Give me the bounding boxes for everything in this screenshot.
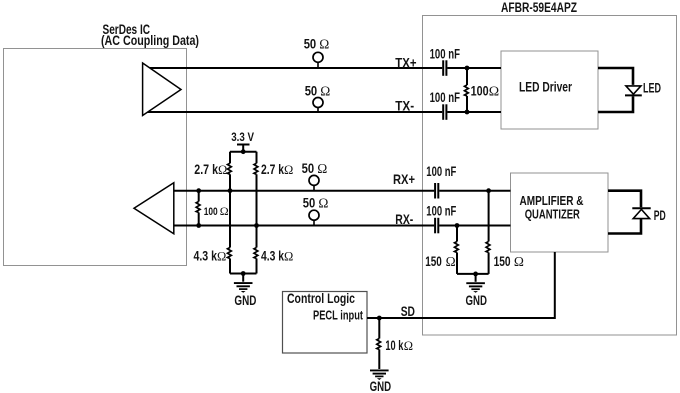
svg-text:QUANTIZER: QUANTIZER	[525, 206, 581, 221]
resistor 150 ohm left	[455, 226, 459, 274]
wire TX- line	[144, 111, 501, 113]
label 100 ohm RX shunt	[204, 204, 229, 218]
label RX+	[393, 171, 415, 187]
label (AC Coupling Data)	[101, 33, 199, 48]
svg-text:TX-: TX-	[395, 98, 414, 114]
node RX+ / left rail	[228, 188, 233, 193]
svg-text:Control Logic: Control Logic	[287, 291, 355, 306]
resistor 50 ohm probe TX-	[313, 98, 323, 113]
svg-text:150: 150	[494, 254, 511, 269]
svg-text:50: 50	[304, 37, 317, 52]
svg-text:TX+: TX+	[395, 54, 416, 70]
node TX- / 100 ohm	[465, 110, 470, 115]
label 150 ohm left	[425, 254, 455, 269]
box AFBR-59E4APZ module outline	[423, 16, 677, 336]
label LED	[643, 80, 661, 95]
wire left bias rail	[229, 174, 231, 247]
svg-text:RX+: RX+	[393, 171, 415, 187]
box Control Logic	[283, 292, 368, 354]
svg-text:150: 150	[425, 254, 442, 269]
svg-text:Ω: Ω	[217, 250, 226, 264]
svg-text:SD: SD	[401, 303, 415, 319]
svg-text:100 nF: 100 nF	[426, 204, 456, 219]
resistor 150 ohm right	[486, 191, 490, 274]
svg-text:Ω: Ω	[319, 37, 329, 52]
wire SD line	[367, 252, 555, 318]
label 50 ohm RX-	[303, 195, 329, 210]
svg-text:4.3 k: 4.3 k	[261, 249, 284, 264]
resistor 100 ohm RX shunt	[196, 191, 200, 226]
label SD	[401, 303, 415, 319]
svg-text:LED: LED	[643, 80, 661, 95]
wire 3.3V top bus	[230, 151, 257, 153]
label 2.7 kOhm right	[261, 162, 293, 177]
svg-text:100: 100	[204, 206, 218, 218]
svg-text:50: 50	[305, 83, 318, 98]
svg-text:RX-: RX-	[395, 211, 413, 227]
node SD / 10k	[377, 316, 382, 321]
label GND bias network	[234, 292, 256, 308]
label 100 nF TX+	[430, 46, 460, 61]
wire RX- line	[174, 225, 511, 227]
svg-text:PECL input: PECL input	[313, 309, 364, 323]
svg-text:2.7 k: 2.7 k	[194, 162, 218, 177]
svg-text:4.3 k: 4.3 k	[194, 249, 218, 264]
label 10 kOhm	[385, 338, 413, 353]
label 4.3 kOhm left	[194, 249, 227, 264]
label GND 10 kOhm	[370, 378, 392, 393]
ground 150 ohm	[466, 274, 485, 293]
wire right bias rail	[256, 174, 258, 247]
box AMPLIFIER & QUANTIZER	[511, 173, 609, 252]
label 3.3 V	[231, 130, 254, 144]
label 4.3 kOhm right	[261, 249, 293, 264]
svg-text:Ω: Ω	[284, 250, 293, 264]
box SerDes IC	[4, 49, 187, 266]
svg-text:Ω: Ω	[320, 83, 330, 98]
label TX+	[395, 54, 416, 70]
power 3.3 V tick	[237, 145, 250, 152]
svg-text:(AC Coupling Data): (AC Coupling Data)	[101, 33, 199, 48]
label GND 150 ohm	[465, 292, 487, 308]
resistor 2.7 kOhm left	[228, 152, 232, 175]
resistor 10 kOhm	[377, 318, 381, 369]
photodiode PD symbol	[632, 208, 650, 218]
svg-text:AFBR-59E4APZ: AFBR-59E4APZ	[501, 0, 577, 15]
node 3.3V bus	[241, 149, 246, 154]
label 100 nF TX-	[430, 90, 460, 105]
svg-text:LED Driver: LED Driver	[519, 79, 572, 95]
node TX+ / 100 ohm	[465, 66, 470, 71]
label LED Driver	[519, 79, 572, 95]
svg-text:3.3 V: 3.3 V	[231, 130, 254, 144]
capacitor 100 nF TX+	[443, 60, 446, 76]
svg-text:2.7 k: 2.7 k	[261, 162, 284, 177]
ground bias network	[234, 274, 253, 293]
wire 150 ohm gnd bus	[457, 273, 489, 275]
svg-text:Ω: Ω	[446, 254, 456, 269]
svg-text:Ω: Ω	[220, 204, 229, 218]
svg-text:GND: GND	[234, 292, 256, 308]
wire LED anode	[598, 68, 633, 85]
LED diode symbol	[625, 86, 642, 96]
svg-text:Ω: Ω	[218, 163, 227, 177]
label PECL input	[313, 309, 364, 323]
resistor 4.3 kOhm right	[254, 248, 258, 274]
capacitor 100 nF RX-	[435, 218, 438, 234]
label SerDes IC	[103, 22, 151, 38]
wire bias gnd bus	[230, 273, 257, 275]
label 50 ohm RX+	[302, 161, 328, 176]
resistor 100 ohm TX shunt	[465, 68, 469, 112]
node 150 ohm gnd bus	[473, 272, 478, 277]
wire PD anode	[608, 219, 641, 234]
op-amp RX buffer	[134, 183, 174, 234]
label 100 nF RX-	[426, 204, 456, 219]
capacitor 100 nF RX+	[435, 183, 438, 199]
label QUANTIZER	[525, 206, 581, 221]
label PD	[654, 208, 666, 223]
node RX+ / 100 ohm	[196, 188, 201, 193]
node bias gnd bus	[241, 271, 246, 276]
op-amp TX buffer	[143, 63, 181, 116]
resistor 50 ohm probe TX+	[313, 52, 323, 68]
resistor 50 ohm probe RX-	[309, 210, 319, 225]
node RX+ cap junction	[486, 188, 491, 193]
svg-text:GND: GND	[370, 378, 392, 393]
svg-text:GND: GND	[465, 292, 487, 308]
resistor 4.3 kOhm left	[228, 248, 232, 274]
svg-text:10 k: 10 k	[385, 338, 403, 353]
svg-text:50: 50	[302, 161, 315, 176]
label 100 nF RX+	[426, 164, 456, 179]
svg-text:Ω: Ω	[284, 163, 293, 177]
wire RX+ line	[174, 190, 511, 192]
svg-text:100 nF: 100 nF	[426, 164, 456, 179]
svg-text:Ω: Ω	[404, 339, 413, 353]
node RX- / 100 ohm	[196, 223, 201, 228]
svg-text:Ω: Ω	[514, 254, 524, 269]
wire PD cathode	[608, 191, 641, 208]
label 100 ohm TX shunt	[471, 84, 500, 100]
node RX- / right rail	[254, 223, 259, 228]
label RX-	[395, 211, 413, 227]
svg-text:Ω: Ω	[318, 195, 328, 210]
svg-text:Ω: Ω	[317, 161, 327, 176]
label AFBR-59E4APZ	[501, 0, 577, 15]
svg-text:Ω: Ω	[489, 85, 499, 100]
label AMPLIFIER &	[520, 193, 584, 208]
svg-text:100 nF: 100 nF	[430, 90, 460, 105]
ground 10 kOhm	[370, 370, 389, 380]
resistor 50 ohm probe RX+	[309, 175, 319, 190]
svg-text:PD: PD	[654, 208, 666, 223]
node RX- cap junction	[455, 223, 460, 228]
wire LED cathode	[598, 96, 633, 112]
label 50 ohm TX-	[305, 83, 331, 98]
svg-text:100: 100	[471, 84, 489, 99]
wire TX+ line	[144, 67, 501, 69]
capacitor 100 nF TX-	[443, 104, 446, 120]
svg-text:100 nF: 100 nF	[430, 46, 460, 61]
label 2.7 kOhm left	[194, 162, 227, 177]
resistor 2.7 kOhm right	[254, 152, 258, 175]
label Control Logic	[287, 291, 355, 306]
svg-text:50: 50	[303, 195, 316, 210]
label TX-	[395, 98, 414, 114]
label 50 ohm TX+	[304, 37, 330, 52]
label 150 ohm right	[494, 254, 524, 269]
box LED Driver	[501, 51, 598, 129]
